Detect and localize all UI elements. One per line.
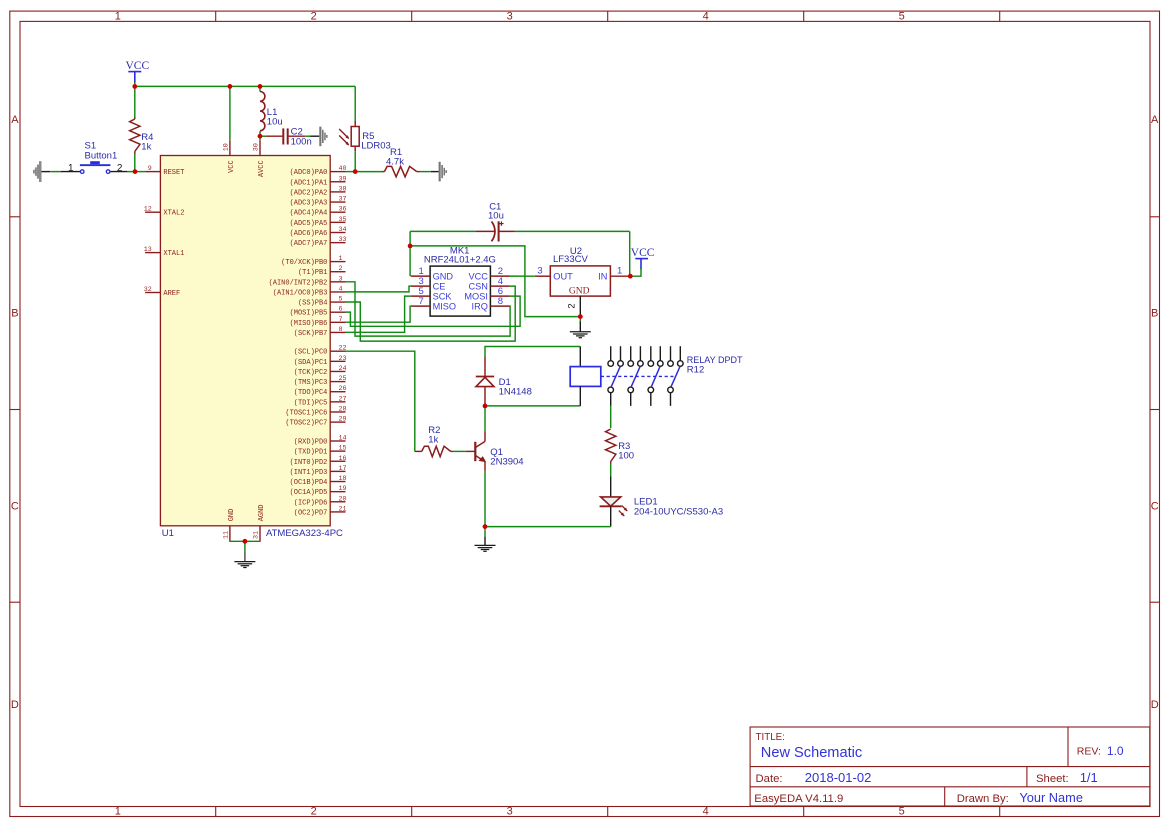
- svg-text:10u: 10u: [267, 117, 283, 128]
- U1 pin 5 (SS)PB4: [298, 296, 346, 308]
- MK1 pin 1 GND: [411, 266, 454, 282]
- U1 pin 19 (OC1A)PD5: [290, 485, 347, 497]
- relay R12 top contact pin 3: [628, 346, 634, 366]
- junction D1 anode / relay / Q1 collector: [483, 404, 488, 409]
- svg-text:(RXD)PD0: (RXD)PD0: [294, 439, 328, 447]
- svg-text:(SDA)PC1: (SDA)PC1: [294, 359, 328, 367]
- svg-text:Sheet:: Sheet:: [1036, 773, 1069, 785]
- wire PB6 to MK1 MISO: [346, 306, 411, 322]
- svg-text:37: 37: [339, 196, 347, 204]
- wire Q1 collector up to D1 junction: [484, 406, 486, 432]
- wire PC0 to R2: [346, 351, 415, 451]
- svg-text:17: 17: [339, 465, 347, 473]
- U1 pin 25 (TMS)PC3: [294, 375, 347, 387]
- svg-text:31: 31: [253, 531, 261, 539]
- svg-text:23: 23: [339, 355, 347, 363]
- U1 pin 9 RESET: [145, 165, 184, 177]
- svg-text:24: 24: [339, 365, 347, 373]
- wire PB3 to MK1 CE: [346, 286, 411, 292]
- U1 pin 12 XTAL2: [144, 206, 185, 218]
- U1 pin 27 (TDI)PC5: [294, 395, 347, 407]
- svg-text:GND: GND: [433, 271, 454, 281]
- wire VCC symbol stem to rail: [134, 82, 136, 86]
- svg-text:A: A: [11, 114, 19, 126]
- svg-text:2: 2: [311, 806, 317, 818]
- svg-text:TITLE:: TITLE:: [756, 732, 785, 743]
- svg-text:35: 35: [339, 216, 347, 224]
- MK1 pin 2 VCC: [468, 266, 509, 282]
- svg-text:(MOSI)PB5: (MOSI)PB5: [290, 310, 328, 318]
- svg-text:(OC1A)PD5: (OC1A)PD5: [290, 489, 328, 497]
- wire Q1 emitter down to bottom rail: [484, 471, 486, 527]
- wire C1 left riser to GND junction: [409, 231, 411, 246]
- svg-text:9: 9: [148, 165, 152, 173]
- svg-text:XTAL1: XTAL1: [163, 250, 184, 258]
- junction rail/L1: [258, 84, 263, 89]
- svg-text:1k: 1k: [428, 435, 438, 446]
- svg-text:1: 1: [115, 10, 121, 22]
- svg-text:Date:: Date:: [756, 773, 783, 785]
- wire ground to S1 pin1: [50, 171, 61, 173]
- junction VCC/R4: [132, 84, 137, 89]
- svg-text:(INT1)PD3: (INT1)PD3: [290, 469, 328, 477]
- junction C1/MK1-GND: [408, 244, 413, 249]
- relay R12 common contact pin 3: [648, 387, 654, 406]
- junction L1/C2/pin30: [258, 134, 263, 139]
- ground at C2: [311, 127, 328, 147]
- svg-text:36: 36: [339, 206, 347, 214]
- svg-text:(INT0)PD2: (INT0)PD2: [290, 459, 328, 467]
- transistor Q1 2N3904 (NPN): [466, 432, 524, 471]
- svg-text:(ADC6)PA6: (ADC6)PA6: [290, 230, 328, 238]
- junction RESET/S1/R4: [133, 169, 138, 174]
- MK1 pin 7 MISO: [411, 296, 456, 312]
- svg-text:2018-01-02: 2018-01-02: [805, 770, 872, 785]
- U1 pin 2 (T1)PB1: [298, 265, 346, 277]
- wire R3 to LED1: [610, 464, 612, 477]
- U1 pin 15 (TXD)PD1: [294, 445, 347, 457]
- svg-text:IRQ: IRQ: [472, 301, 488, 311]
- svg-text:XTAL2: XTAL2: [163, 210, 184, 218]
- power flag VCC (top-left): [125, 60, 149, 83]
- relay R12 switch lever: [611, 367, 620, 387]
- relay R12 common contact pin 2: [628, 387, 634, 406]
- svg-text:21: 21: [339, 505, 347, 513]
- svg-text:(ADC1)PA1: (ADC1)PA1: [290, 179, 328, 187]
- U1 pin 31 AGND (bottom): [253, 504, 267, 541]
- U1 pin 35 (ADC5)PA5: [290, 216, 347, 228]
- svg-text:MISO: MISO: [433, 301, 456, 311]
- U1 pin 17 (INT1)PD3: [290, 465, 347, 477]
- U1 pin 37 (ADC3)PA3: [290, 196, 347, 208]
- svg-text:AVCC: AVCC: [258, 160, 266, 177]
- inductor L1 10u: [260, 86, 283, 130]
- MK1 pin 5 SCK: [411, 286, 453, 302]
- U2 pin 2 GND: [567, 286, 590, 316]
- wire VCC flag to U2 IN: [630, 268, 641, 276]
- relay R12 common contact pin 4: [668, 387, 674, 406]
- wire R2 to Q1 base: [453, 450, 466, 452]
- svg-text:(T1)PB1: (T1)PB1: [298, 269, 327, 277]
- relay R12 top contact pin 2: [618, 346, 624, 366]
- U1 pin 14 (RXD)PD0: [294, 435, 347, 447]
- ground (earth) at S1: [33, 161, 50, 182]
- svg-text:IN: IN: [598, 272, 607, 282]
- svg-text:New Schematic: New Schematic: [761, 745, 862, 761]
- pushbutton S1 Button1: [61, 140, 127, 174]
- relay R12 top contact pin 6: [658, 346, 664, 366]
- U1 pin 26 (TDO)PC4: [294, 385, 347, 397]
- relay R12 top contact pin 8: [678, 346, 684, 366]
- regulator U2 LF33CV body: [550, 266, 610, 296]
- svg-text:1: 1: [617, 266, 622, 277]
- U1 pin 33 (ADC7)PA7: [290, 236, 347, 248]
- U1 pin 22 (SCL)PC0: [294, 345, 347, 357]
- svg-text:Your Name: Your Name: [1019, 790, 1083, 805]
- wire D1 junction to relay coil bottom: [485, 405, 580, 407]
- U1 pin 29 (TOSC2)PC7: [285, 416, 346, 428]
- svg-text:CSN: CSN: [468, 281, 487, 291]
- svg-text:33: 33: [339, 236, 347, 244]
- svg-text:1: 1: [339, 255, 343, 263]
- svg-text:32: 32: [144, 286, 152, 294]
- wire S1 pin2 to junction: [127, 171, 135, 173]
- svg-text:16: 16: [339, 455, 347, 463]
- resistor R4 1k: [130, 86, 154, 154]
- svg-text:(ADC4)PA4: (ADC4)PA4: [290, 210, 328, 218]
- svg-text:SCK: SCK: [433, 291, 453, 301]
- U1 pin 20 (ICP)PD6: [294, 495, 347, 507]
- U1 pin 36 (ADC4)PA4: [290, 206, 347, 218]
- svg-text:(SCK)PB7: (SCK)PB7: [294, 330, 328, 338]
- svg-text:4: 4: [703, 10, 709, 22]
- svg-text:3: 3: [507, 806, 513, 818]
- svg-text:20: 20: [339, 495, 347, 503]
- svg-text:19: 19: [339, 485, 347, 493]
- svg-text:27: 27: [339, 395, 347, 403]
- svg-text:RESET: RESET: [163, 169, 184, 177]
- wire MK1 VCC to U2 OUT: [510, 275, 535, 277]
- svg-text:OUT: OUT: [553, 272, 573, 282]
- svg-text:38: 38: [339, 185, 347, 193]
- wire GND net across to U2 GND: [410, 246, 580, 317]
- svg-text:22: 22: [339, 345, 347, 353]
- svg-text:(ICP)PD6: (ICP)PD6: [294, 499, 328, 507]
- svg-text:C: C: [1151, 500, 1159, 512]
- svg-text:40: 40: [339, 165, 347, 173]
- power flag VCC (at U2): [631, 247, 655, 269]
- wire riser down to U2 IN junction: [629, 231, 631, 276]
- svg-text:VCC: VCC: [631, 247, 655, 259]
- relay R12 switch lever: [651, 367, 660, 387]
- svg-text:LDR03: LDR03: [361, 140, 391, 151]
- svg-text:2: 2: [567, 303, 578, 308]
- svg-text:7: 7: [339, 316, 343, 324]
- wire GND/AGND tie: [230, 540, 260, 542]
- svg-text:34: 34: [339, 226, 347, 234]
- svg-text:(TOSC2)PC7: (TOSC2)PC7: [285, 420, 327, 428]
- U1 pin 7 (MISO)PB6: [290, 316, 346, 328]
- svg-text:EasyEDA V4.11.9: EasyEDA V4.11.9: [754, 793, 843, 805]
- U1 pin 34 (ADC6)PA6: [290, 226, 347, 238]
- svg-text:MOSI: MOSI: [464, 291, 487, 301]
- U1 pin 24 (TCK)PC2: [294, 365, 347, 377]
- U1 pin 3 (AIN0/INT2)PB2: [269, 275, 346, 287]
- svg-text:(SS)PB4: (SS)PB4: [298, 300, 327, 308]
- photoresistor R5 LDR03: [339, 86, 391, 151]
- svg-text:12: 12: [144, 206, 152, 214]
- svg-text:2: 2: [311, 10, 317, 22]
- resistor R3 100: [606, 429, 635, 464]
- svg-text:100: 100: [618, 451, 634, 462]
- svg-text:ATMEGA323-4PC: ATMEGA323-4PC: [266, 528, 343, 539]
- svg-text:D: D: [11, 699, 19, 711]
- svg-text:14: 14: [339, 435, 347, 443]
- U2 pin 1 IN: [598, 266, 629, 282]
- U1 pin 6 (MOSI)PB5: [290, 306, 346, 318]
- svg-text:(MISO)PB6: (MISO)PB6: [290, 320, 328, 328]
- svg-text:10: 10: [222, 143, 230, 151]
- U1 pin 39 (ADC1)PA1: [290, 175, 347, 187]
- svg-text:(OC2)PD7: (OC2)PD7: [294, 509, 328, 517]
- svg-text:(ADC3)PA3: (ADC3)PA3: [290, 200, 328, 208]
- svg-text:B: B: [11, 308, 18, 320]
- svg-text:30: 30: [253, 143, 261, 151]
- svg-text:D: D: [1151, 699, 1159, 711]
- U2 pin 3 OUT: [535, 266, 573, 282]
- svg-text:26: 26: [339, 385, 347, 393]
- svg-text:Button1: Button1: [85, 151, 118, 162]
- wire C1 right to U2 IN riser: [515, 230, 630, 232]
- svg-text:Drawn By:: Drawn By:: [957, 793, 1009, 805]
- svg-text:(TCK)PC2: (TCK)PC2: [294, 369, 328, 377]
- svg-text:25: 25: [339, 375, 347, 383]
- wire R1 to ground: [420, 171, 431, 173]
- svg-text:15: 15: [339, 445, 347, 453]
- relay R12 common contact pin 1: [608, 387, 614, 406]
- resistor R2 1k: [415, 425, 453, 456]
- svg-text:B: B: [1151, 308, 1158, 320]
- frame column ticks: [216, 11, 1000, 816]
- svg-text:5: 5: [899, 10, 905, 22]
- svg-text:(TMS)PC3: (TMS)PC3: [294, 379, 328, 387]
- relay R12 top contact pin 5: [648, 346, 654, 366]
- svg-text:4: 4: [339, 285, 343, 293]
- svg-text:2: 2: [117, 163, 123, 174]
- svg-text:(TDI)PC5: (TDI)PC5: [294, 399, 328, 407]
- U1 pin 32 AREF: [144, 286, 180, 298]
- diode D1 1N4148: [476, 357, 532, 406]
- relay R12 switch lever: [671, 367, 680, 387]
- U1 pin 4 (AIN1/OC0)PB3: [273, 285, 346, 297]
- wire relay contact to R3: [610, 406, 612, 428]
- svg-text:7: 7: [418, 296, 423, 307]
- svg-text:8: 8: [339, 326, 343, 334]
- U1 pin 28 (TOSC1)PC6: [285, 405, 346, 417]
- relay R12 actuation dashed line: [601, 375, 674, 377]
- U1 pin 10 VCC (top): [222, 140, 235, 173]
- svg-text:GND: GND: [228, 509, 236, 522]
- junction PA0/R5/R1: [353, 169, 358, 174]
- wire junction down to MK1 GND pin: [409, 246, 411, 276]
- ground under Q1: [475, 527, 496, 552]
- LED LED1 204-10UYC/S530-A3: [600, 476, 724, 526]
- svg-text:(TOSC1)PC6: (TOSC1)PC6: [285, 409, 327, 417]
- svg-text:29: 29: [339, 416, 347, 424]
- relay R12 coil pin bottom: [579, 386, 581, 406]
- svg-text:(TXD)PD1: (TXD)PD1: [294, 449, 328, 457]
- ground under U2: [570, 317, 591, 338]
- relay R12 top contact pin 1: [608, 346, 614, 366]
- svg-text:VCC: VCC: [468, 271, 488, 281]
- relay R12 top contact pin 4: [638, 346, 644, 366]
- junction U2 IN / VCC: [628, 274, 633, 279]
- svg-text:39: 39: [339, 175, 347, 183]
- capacitor C2 100n: [260, 126, 312, 147]
- svg-text:GND: GND: [569, 286, 590, 296]
- svg-text:100n: 100n: [291, 137, 312, 148]
- svg-text:1: 1: [68, 163, 74, 174]
- relay R12 coil box: [570, 367, 601, 387]
- wire VCC rail top: [135, 85, 355, 87]
- svg-text:A: A: [1151, 114, 1159, 126]
- U1 pin 23 (SDA)PC1: [294, 355, 347, 367]
- svg-text:CE: CE: [433, 281, 446, 291]
- svg-text:AREF: AREF: [163, 290, 180, 298]
- wire PB7 to MK1 SCK: [346, 296, 411, 332]
- MK1 pin 3 CE: [411, 276, 446, 292]
- U1 pin 16 (INT0)PD2: [290, 455, 347, 467]
- svg-text:3: 3: [537, 266, 542, 277]
- svg-text:VCC: VCC: [228, 160, 236, 173]
- relay R12 coil pin top: [579, 347, 581, 367]
- junction Q1 emitter / ground: [483, 524, 488, 529]
- svg-text:1: 1: [115, 806, 121, 818]
- svg-text:5: 5: [339, 296, 343, 304]
- ground at R1: [431, 162, 447, 182]
- capacitor C1 10u (polarized): [410, 201, 515, 241]
- wire bottom rail Q1 emitter to LED1: [485, 526, 611, 528]
- svg-text:C: C: [11, 500, 19, 512]
- svg-text:4.7k: 4.7k: [386, 156, 404, 167]
- wire C2 to ground: [305, 135, 310, 137]
- svg-text:(ADC7)PA7: (ADC7)PA7: [290, 240, 328, 248]
- svg-text:(AIN0/INT2)PB2: (AIN0/INT2)PB2: [269, 279, 328, 287]
- svg-text:2N3904: 2N3904: [490, 456, 523, 467]
- svg-text:8: 8: [498, 296, 503, 307]
- U1 pin 13 XTAL1: [144, 246, 185, 258]
- junction GND tie: [243, 539, 248, 544]
- U1 pin 11 GND (bottom): [222, 509, 235, 541]
- svg-text:2: 2: [339, 265, 343, 273]
- svg-text:3: 3: [507, 10, 513, 22]
- U1 pin 38 (ADC2)PA2: [290, 185, 347, 197]
- svg-text:(AIN1/OC0)PB3: (AIN1/OC0)PB3: [273, 289, 328, 297]
- svg-text:1N4148: 1N4148: [499, 386, 532, 397]
- svg-text:6: 6: [339, 306, 343, 314]
- svg-text:(ADC2)PA2: (ADC2)PA2: [290, 189, 328, 197]
- svg-text:(OC1B)PD4: (OC1B)PD4: [290, 479, 328, 487]
- svg-text:(ADC0)PA0: (ADC0)PA0: [290, 169, 328, 177]
- wire L1 to junction: [259, 131, 261, 136]
- frame row ticks: [10, 217, 1160, 602]
- U1 pin 30 AVCC (top): [253, 140, 267, 177]
- wire R5 to PA0 junction: [354, 151, 356, 171]
- wire junction to U1 pin30: [259, 136, 261, 140]
- svg-text:3: 3: [339, 275, 343, 283]
- svg-text:1k: 1k: [141, 142, 151, 153]
- svg-text:11: 11: [222, 531, 230, 539]
- junction U2 GND: [578, 314, 583, 319]
- MK1 pin 4 CSN: [468, 276, 509, 292]
- wire PB4 to MK1 CSN: [346, 286, 516, 341]
- svg-text:R12: R12: [687, 365, 704, 376]
- svg-text:U1: U1: [162, 528, 174, 539]
- ground under U1: [234, 541, 255, 567]
- svg-text:1.0: 1.0: [1107, 744, 1124, 758]
- wire rail to U1 pin10: [229, 86, 231, 140]
- wire PB2 to MK1 IRQ: [346, 282, 511, 336]
- svg-text:NRF24L01+2.4G: NRF24L01+2.4G: [424, 255, 496, 266]
- wire D1/relay top link: [485, 347, 580, 357]
- svg-text:(ADC5)PA5: (ADC5)PA5: [290, 220, 328, 228]
- svg-text:4: 4: [703, 806, 709, 818]
- U1 pin 40 (ADC0)PA0: [290, 165, 347, 177]
- svg-text:AGND: AGND: [258, 504, 266, 521]
- wire junction to RESET pin: [135, 171, 145, 173]
- U1 pin 8 (SCK)PB7: [294, 326, 346, 338]
- IC U1 ATMEGA323-4PC body: [160, 156, 330, 526]
- svg-text:204-10UYC/S530-A3: 204-10UYC/S530-A3: [634, 507, 723, 518]
- U1 pin 1 (T0/XCK)PB0: [281, 255, 345, 267]
- U1 pin 18 (OC1B)PD4: [290, 475, 347, 487]
- svg-text:10u: 10u: [488, 210, 504, 221]
- U1 pin 21 (OC2)PD7: [294, 505, 347, 517]
- wire R4 to RESET junction: [134, 154, 136, 172]
- svg-text:18: 18: [339, 475, 347, 483]
- svg-text:LF33CV: LF33CV: [553, 254, 589, 265]
- MK1 pin 8 IRQ: [472, 296, 510, 312]
- svg-text:28: 28: [339, 405, 347, 413]
- svg-text:REV:: REV:: [1077, 746, 1101, 758]
- resistor R1 4.7k: [355, 147, 419, 177]
- wire junction to PA0 pin: [346, 171, 356, 173]
- svg-text:5: 5: [899, 806, 905, 818]
- relay R12 switch lever: [631, 367, 640, 387]
- title block: [750, 727, 1150, 806]
- svg-text:13: 13: [144, 246, 152, 254]
- svg-text:(T0/XCK)PB0: (T0/XCK)PB0: [281, 259, 327, 267]
- MK1 pin 6 MOSI: [464, 286, 509, 302]
- junction rail/pin10: [228, 84, 233, 89]
- relay R12 top contact pin 7: [668, 346, 674, 366]
- svg-text:(SCL)PC0: (SCL)PC0: [294, 349, 328, 357]
- svg-text:VCC: VCC: [125, 60, 149, 72]
- module MK1 NRF24L01+2.4G body: [430, 266, 490, 316]
- svg-text:1/1: 1/1: [1080, 770, 1098, 785]
- svg-text:(TDO)PC4: (TDO)PC4: [294, 389, 328, 397]
- wire PB5 to MK1 MOSI: [346, 296, 521, 326]
